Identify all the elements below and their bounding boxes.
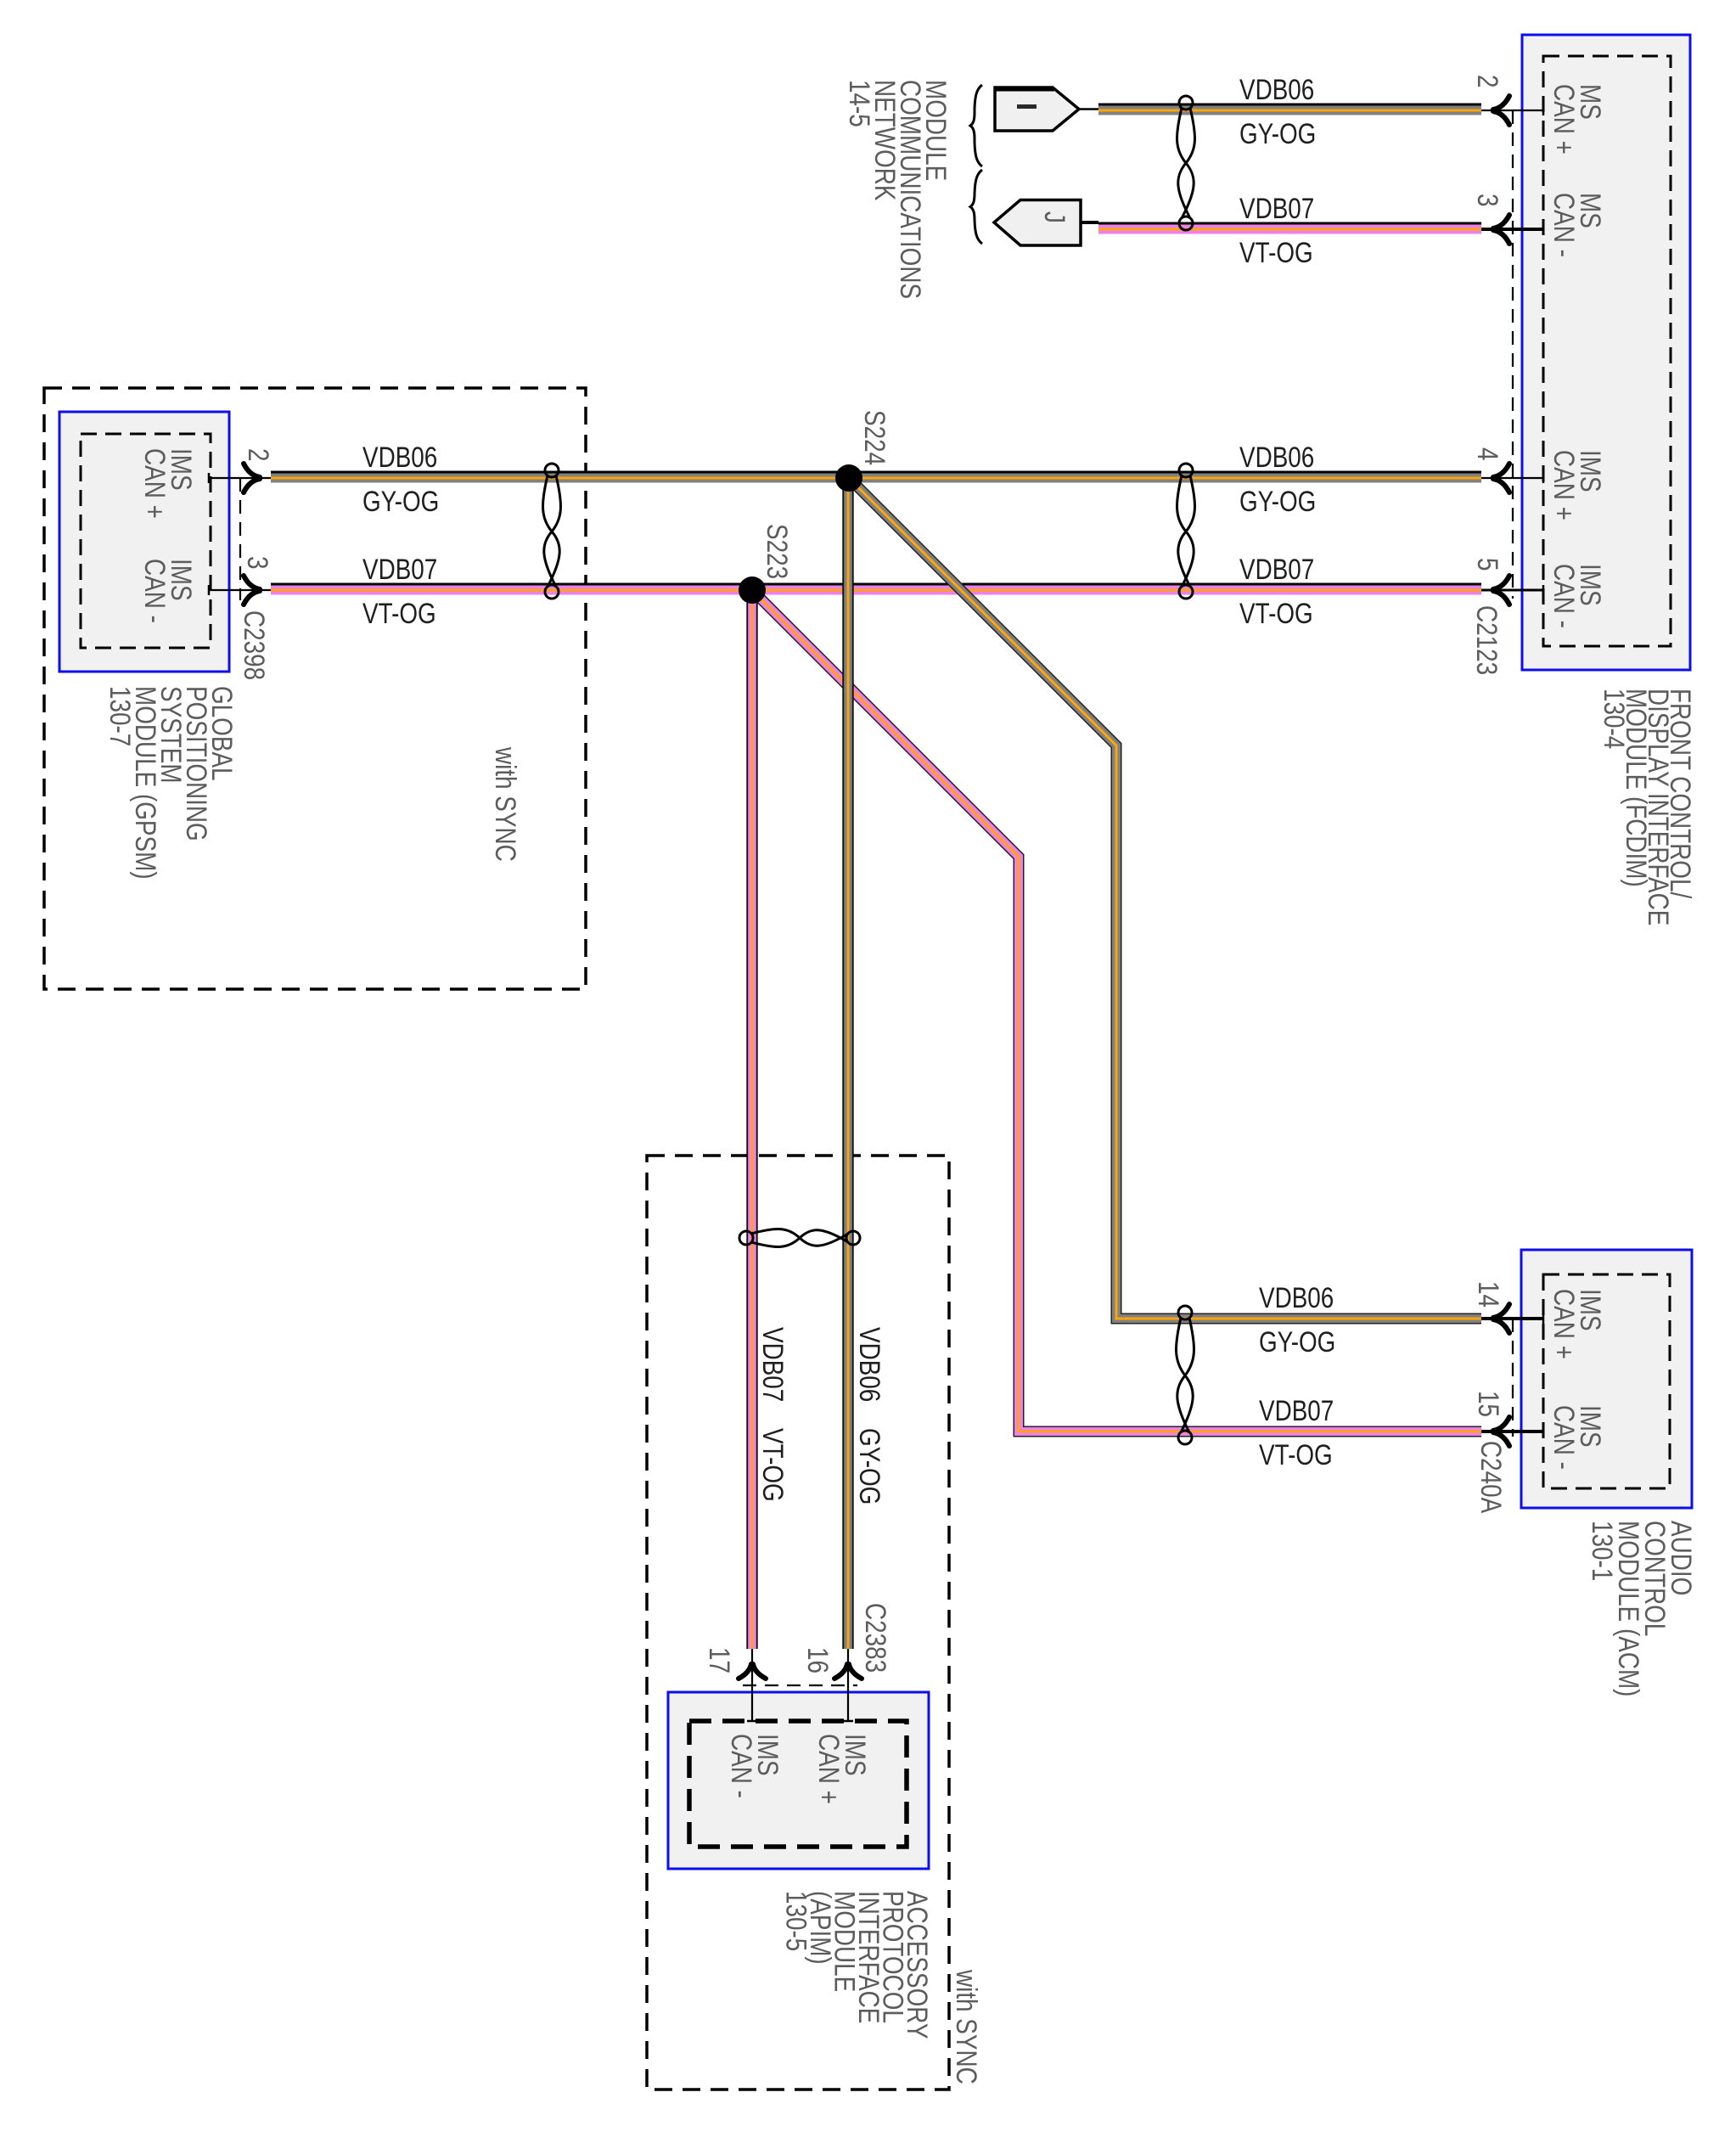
GPSM pin 2 [209, 448, 275, 492]
APIM module label [780, 1891, 934, 2039]
svg-text:16: 16 [801, 1647, 834, 1673]
wire VDB06 route S224 to ACM pin 14 [849, 478, 1481, 1319]
svg-text:130-5: 130-5 [780, 1891, 812, 1951]
svg-text:3: 3 [1471, 194, 1503, 207]
FCDIM connector dashed line C2123 [1512, 110, 1514, 599]
svg-text:130-7: 130-7 [104, 686, 136, 746]
svg-text:CAN +: CAN + [1548, 84, 1580, 155]
APIM pin 16 [801, 1647, 862, 1721]
svg-text:CAN -: CAN - [1548, 193, 1580, 257]
svg-text:VT-OG: VT-OG [1259, 1438, 1333, 1471]
svg-text:VDB07: VDB07 [756, 1327, 789, 1402]
FCDIM pin 5 [1471, 558, 1543, 605]
svg-text:CAN +: CAN + [812, 1734, 845, 1804]
svg-text:VDB07: VDB07 [1239, 192, 1314, 224]
svg-text:C2123: C2123 [1470, 605, 1503, 675]
svg-text:VDB06: VDB06 [1239, 441, 1314, 473]
APIM pin 17 [703, 1647, 766, 1721]
svg-text:with SYNC: with SYNC [950, 1969, 982, 2084]
wire VDB07 VT-OG row B (J to FCDIM pin 3) [1098, 222, 1481, 234]
svg-text:2: 2 [1471, 75, 1503, 88]
svg-text:GY-OG: GY-OG [1239, 117, 1316, 149]
dashed group box with SYNC (APIM) [647, 1156, 949, 2090]
module ACM box [1521, 1250, 1692, 1508]
splice S224 [835, 464, 862, 492]
svg-text:VT-OG: VT-OG [362, 597, 436, 629]
twisted pair symbol rows C-D (right) [1177, 464, 1195, 599]
FCDIM pin 2 [1471, 75, 1543, 125]
svg-text:3: 3 [241, 556, 273, 570]
twisted pair symbol rows C-D (left, GPSM side) [543, 464, 561, 599]
ACM pin names [1548, 1289, 1606, 1470]
svg-text:15: 15 [1472, 1391, 1504, 1417]
svg-text:CAN -: CAN - [138, 559, 171, 623]
ACM pin 15 [1472, 1391, 1543, 1446]
module FCDIM box [1522, 35, 1690, 670]
wire VDB06 GY-OG row C (GPSM pin 2 to FCDIM pin 4) [271, 471, 1481, 483]
svg-text:CAN -: CAN - [1548, 564, 1580, 628]
svg-text:VDB06: VDB06 [1259, 1281, 1334, 1313]
APIM connector dashed line C2383 [743, 1685, 857, 1686]
svg-text:4: 4 [1471, 447, 1503, 461]
twisted pair symbol APIM verticals (horizontal) [739, 1229, 860, 1247]
svg-text:VT-OG: VT-OG [756, 1428, 789, 1502]
svg-text:CAN +: CAN + [138, 448, 171, 519]
wire VDB07 route S223 to ACM pin 15 [752, 590, 1481, 1431]
module APIM box [668, 1692, 929, 1869]
wire VDB07 vertical from S223 to APIM pin 17 [746, 590, 757, 1649]
wire VDB07 VT-OG row D (GPSM pin 3 to FCDIM pin 5) [271, 583, 1481, 595]
svg-text:CAN +: CAN + [1548, 1289, 1580, 1359]
svg-text:S223: S223 [761, 524, 793, 579]
svg-text:VDB07: VDB07 [1259, 1394, 1334, 1426]
svg-text:14-5: 14-5 [843, 80, 875, 127]
svg-text:VT-OG: VT-OG [1239, 236, 1313, 268]
svg-text:C240A: C240A [1475, 1441, 1507, 1513]
GPSM connector dashed line C2398 [239, 478, 241, 600]
GPSM pin 3 [209, 556, 274, 605]
FCDIM pin 4 [1471, 447, 1543, 492]
svg-text:CAN +: CAN + [1548, 450, 1580, 520]
dashed group box with SYNC (GPSM) [44, 388, 586, 989]
svg-text:VDB06: VDB06 [1239, 73, 1314, 105]
svg-text:with SYNC: with SYNC [489, 746, 521, 862]
GPSM pin names [138, 448, 197, 623]
svg-text:S224: S224 [858, 410, 890, 465]
svg-text:14: 14 [1472, 1281, 1504, 1308]
svg-text:C2383: C2383 [859, 1603, 891, 1673]
svg-text:C2398: C2398 [238, 610, 270, 680]
svg-text:CAN -: CAN - [725, 1734, 757, 1798]
svg-text:GY-OG: GY-OG [853, 1428, 885, 1505]
brace upper [970, 85, 982, 166]
svg-text:17: 17 [703, 1647, 735, 1673]
svg-text:J: J [1038, 211, 1070, 223]
svg-text:VT-OG: VT-OG [1239, 597, 1313, 629]
svg-text:130-1: 130-1 [1586, 1521, 1618, 1581]
svg-text:GY-OG: GY-OG [1259, 1325, 1335, 1358]
ACM connector dashed line C240A [1512, 1319, 1514, 1437]
label MODULE COMMUNICATIONS NETWORK 14-5 [843, 80, 952, 299]
svg-text:VDB06: VDB06 [362, 441, 437, 473]
FCDIM pin names [1548, 84, 1606, 628]
svg-text:CAN -: CAN - [1548, 1405, 1580, 1470]
svg-text:VDB06: VDB06 [853, 1327, 885, 1402]
svg-text:2: 2 [242, 448, 274, 462]
brace lower [970, 170, 982, 244]
ACM pin 14 [1472, 1281, 1543, 1333]
FCDIM module label [1598, 689, 1696, 925]
GPSM module label [104, 686, 238, 880]
FCDIM pin 3 [1471, 194, 1543, 244]
off-page connector I [994, 87, 1098, 131]
ACM module label [1586, 1521, 1697, 1696]
twisted pair symbol rows A-B [1177, 96, 1195, 230]
svg-text:VDB07: VDB07 [1239, 553, 1314, 585]
wire VDB06 GY-OG row A (I to FCDIM pin 2) [1098, 104, 1481, 115]
svg-text:GY-OG: GY-OG [1239, 485, 1316, 517]
twisted pair symbol rows E-F (ACM) [1177, 1306, 1194, 1444]
module GPSM box [59, 412, 229, 672]
APIM pin names [725, 1734, 871, 1804]
off-page connector J [994, 200, 1098, 246]
wire VDB06 vertical from S224 to APIM pin 16 [842, 478, 853, 1649]
svg-text:130-4: 130-4 [1598, 689, 1630, 749]
svg-text:VDB07: VDB07 [362, 553, 437, 585]
splice S223 [739, 577, 766, 604]
svg-text:GY-OG: GY-OG [362, 485, 439, 517]
svg-text:5: 5 [1471, 558, 1503, 571]
